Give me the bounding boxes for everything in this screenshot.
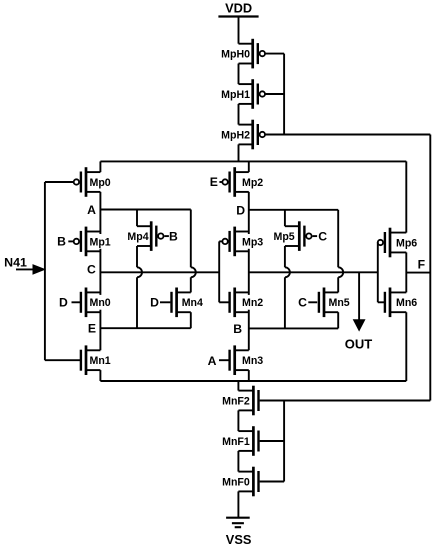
svg-text:Mn2: Mn2 [242, 297, 263, 309]
wire MnF2 source to MnF1 drain [237, 410, 239, 431]
label Mn0 [88, 295, 113, 310]
wire input E to Mp2 gate [219, 181, 222, 183]
svg-text:Mp6: Mp6 [396, 237, 417, 249]
svg-text:VSS: VSS [226, 532, 252, 547]
wire node A [100, 209, 190, 211]
wire Mp6/Mn6 gate bus vertical [377, 243, 379, 303]
transistor Mn1 [81, 345, 111, 375]
svg-text:Mp4: Mp4 [127, 231, 148, 243]
transistor MnF0 [222, 467, 258, 497]
wire node E [100, 327, 190, 329]
wire input B to Mp1 gate [68, 240, 73, 242]
wire input B to Mp4 gate [164, 235, 169, 237]
wire input A to Mn3 gate [219, 359, 229, 361]
wire footer gate bus vertical [283, 401, 285, 482]
svg-text:D: D [59, 296, 68, 310]
wire MnF1 gate [260, 440, 285, 442]
wire top VDD rail [100, 160, 406, 162]
wire node C to Mp3/Mn2 gates [100, 271, 219, 273]
OUT arrowhead [354, 320, 365, 331]
wire Mn4 source to node E corner [190, 312, 192, 328]
wire Mp2 drain to VDD rail [248, 161, 250, 172]
transistor MpH2 [221, 120, 265, 150]
wire input C to Mp5 gate [313, 235, 318, 237]
svg-text:Mn3: Mn3 [242, 355, 263, 367]
wire Mp3 gate bubble to gate bus [219, 240, 222, 242]
svg-text:C: C [87, 262, 96, 276]
VSS ground symbol [226, 518, 252, 548]
wire node D [249, 209, 338, 211]
wire input D to Mn4 gate [160, 301, 170, 303]
wire node D corner to Mn5 drain (hops over output line) [337, 210, 339, 267]
transistor Mn2 [230, 288, 249, 318]
svg-text:D: D [150, 296, 159, 310]
wire right feedback bus vertical [429, 135, 431, 401]
svg-text:Mn4: Mn4 [182, 297, 203, 309]
label Mp3 [241, 234, 266, 249]
wire Mp4 source to node E (hops over C) [136, 246, 138, 267]
label Mp1 [88, 234, 113, 249]
wire MnF1 source to MnF0 drain [237, 451, 239, 472]
wire bottom VSS rail [100, 380, 406, 382]
transistor Mn3 [230, 345, 264, 375]
svg-text:D: D [236, 203, 245, 217]
wire Mn6 source to bottom rail [405, 312, 407, 381]
wire Mp6 gate bubble to gate bus [377, 242, 380, 244]
svg-text:MnF2: MnF2 [222, 395, 250, 407]
svg-text:Mp0: Mp0 [90, 177, 111, 189]
wire N41 input bus vertical [44, 182, 46, 360]
svg-text:B: B [169, 229, 178, 243]
wire middle stack Mp2 source to Mn3 drain [248, 192, 250, 350]
svg-text:A: A [87, 203, 96, 217]
wire MpH2 gate to node F right bus [265, 134, 430, 136]
wire gate bus to Mn6 gate [378, 301, 385, 303]
transistor MpH1 [221, 79, 265, 109]
wire left stack Mp0 source to Mn1 drain [99, 192, 101, 350]
wire input D to Mn0 gate [72, 301, 81, 303]
wire node F to right bus [406, 272, 430, 274]
wire input C to Mn5 gate [308, 301, 317, 303]
wire Mp5 source to node B (hops over output line) [284, 246, 286, 267]
svg-text:B: B [233, 322, 242, 336]
wire Mp0 drain to VDD rail [99, 161, 101, 172]
wire MnF0 source to ground [237, 491, 239, 517]
wire gate bus to Mn2 gate [219, 301, 229, 303]
wire VDD to MpH0 drain [238, 17, 240, 44]
svg-text:E: E [210, 175, 218, 189]
transistor Mp3 [222, 227, 248, 257]
wire Mp3/Mn2 gate bus vertical [218, 241, 220, 302]
wire MnF2 gate to node F right bus [260, 400, 431, 402]
wire Mn5 source to node B corner [337, 312, 339, 328]
transistor Mn5 [319, 288, 350, 318]
transistor MpH0 [221, 39, 265, 69]
VDD power symbol [218, 1, 258, 17]
svg-text:MnF1: MnF1 [222, 436, 250, 448]
svg-text:MpH0: MpH0 [221, 49, 250, 61]
wire MpH2 source to VDD rail [238, 144, 240, 161]
svg-text:B: B [57, 235, 66, 249]
transistor Mn6 [385, 288, 417, 318]
svg-text:Mn0: Mn0 [90, 297, 111, 309]
svg-text:MpH2: MpH2 [221, 129, 250, 141]
transistor Mp6 [378, 228, 418, 258]
svg-text:C: C [318, 229, 327, 243]
wire N41 arrow [16, 268, 34, 270]
label Mn2 [241, 295, 266, 310]
wire bottom rail to MnF2 drain [237, 381, 239, 391]
svg-text:OUT: OUT [345, 337, 373, 352]
wire Mn3 source to bottom rail [248, 370, 250, 381]
wire Mp0 gate from N41 bus [45, 181, 74, 183]
svg-text:C: C [298, 296, 307, 310]
wire Mn1 source to bottom rail [99, 370, 101, 381]
svg-text:Mn5: Mn5 [329, 297, 350, 309]
transistor MnF2 [222, 386, 258, 416]
wire MpH1 gate [265, 93, 284, 95]
svg-text:Mn6: Mn6 [396, 297, 417, 309]
transistor Mp0 [74, 167, 111, 197]
wire Mn1 gate from N41 bus [45, 359, 80, 361]
wire node A to Mp4 drain [136, 210, 138, 227]
wire node A corner to Mn4 drain (hops over C) [190, 210, 192, 268]
transistor MnF1 [222, 426, 258, 456]
svg-text:MnF0: MnF0 [222, 476, 250, 488]
wire Mp6 source to Mn6 drain through node F [405, 252, 407, 292]
svg-text:Mp5: Mp5 [274, 231, 295, 243]
wire header gate bus vertical [283, 54, 285, 135]
transistor Mp1 [74, 227, 101, 257]
wire MpH1 source to MpH2 drain [238, 104, 240, 125]
transistor Mp5 [274, 221, 312, 251]
wire node B [249, 327, 338, 329]
wire MnF0 gate [260, 481, 285, 483]
svg-text:Mp1: Mp1 [90, 236, 111, 248]
wire Mp6 drain to VDD rail [405, 161, 407, 232]
svg-text:N41: N41 [4, 255, 27, 269]
wire internal output node to Mp6/Mn6 gates [249, 271, 378, 273]
svg-text:E: E [88, 322, 96, 336]
wire OUT stem [358, 272, 360, 321]
transistor Mn0 [81, 288, 101, 318]
wire MpH0 source to MpH1 drain [238, 64, 240, 85]
wire MpH0 gate [265, 53, 284, 55]
svg-text:F: F [418, 257, 425, 271]
transistor Mn4 [172, 288, 203, 318]
transistor Mp2 [222, 167, 263, 197]
svg-text:MpH1: MpH1 [221, 89, 250, 101]
svg-text:A: A [208, 354, 217, 368]
svg-text:VDD: VDD [225, 1, 252, 16]
wire node D to Mp5 drain [284, 210, 286, 226]
transistor Mp4 [127, 221, 163, 251]
svg-text:Mp3: Mp3 [242, 236, 263, 248]
svg-text:Mn1: Mn1 [90, 355, 111, 367]
svg-text:Mp2: Mp2 [242, 177, 263, 189]
